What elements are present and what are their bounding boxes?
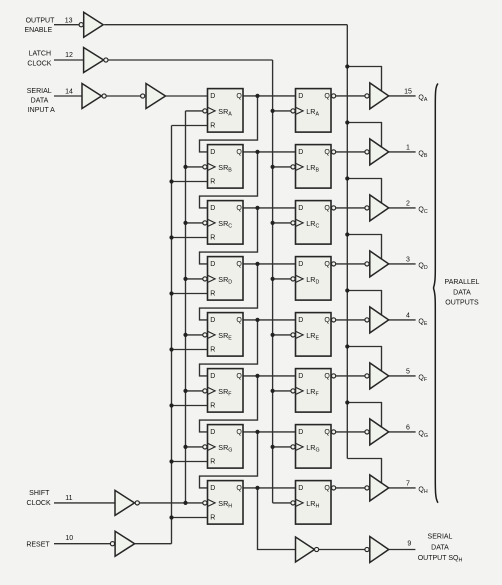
node shift clock bus tap F	[183, 389, 187, 393]
svg-text:5: 5	[406, 368, 410, 375]
clock bubble LRC	[291, 221, 295, 225]
svg-text:D: D	[298, 261, 303, 268]
svg-text:R: R	[210, 235, 215, 242]
svg-text:D: D	[210, 149, 215, 156]
svg-text:D: D	[298, 317, 303, 324]
clock bubble LRD	[291, 277, 295, 281]
wire shift clock branch to SRG	[186, 446, 203, 448]
clock bubble LRE	[291, 333, 295, 337]
svg-text:14: 14	[65, 89, 73, 96]
inverter RESET input bubble	[110, 542, 114, 546]
svg-text:11: 11	[65, 495, 72, 502]
wire SRH Q to LRH D	[243, 487, 296, 489]
wire shift clock branch to SRD	[186, 278, 203, 280]
buffer serial output first	[296, 537, 315, 562]
wire LATCH CLOCK pin 12 input stub	[54, 59, 84, 61]
wire latch clock branch to LRA	[273, 110, 291, 112]
node reset bus tap E	[169, 347, 173, 351]
wire SRC Q to LRC D	[243, 207, 296, 209]
inverted Q bubble LRB	[332, 150, 336, 154]
wire QB output pin 1	[389, 151, 416, 153]
svg-text:Q: Q	[324, 93, 330, 100]
svg-text:D: D	[210, 261, 215, 268]
node shift clock bus bottom tap	[183, 501, 187, 505]
node OE bus tap E	[345, 288, 349, 292]
svg-text:Q: Q	[236, 93, 242, 100]
wire SHIFT CLOCK pin 11 input stub	[54, 502, 115, 504]
svg-text:DATA: DATA	[453, 289, 471, 296]
svg-text:D: D	[210, 373, 215, 380]
node OE bus tap A	[345, 64, 349, 68]
inverted Q bubble LRC	[332, 206, 336, 210]
node OE bus tap C	[345, 176, 349, 180]
wire shift clock branch to SRB	[186, 166, 203, 168]
inverter SHIFT CLOCK output bubble	[135, 501, 139, 505]
flip-flop LRA	[296, 89, 332, 133]
svg-text:9: 9	[407, 540, 411, 547]
wire latch-clock net from buffer to latch bus	[108, 59, 273, 61]
svg-text:ENABLE: ENABLE	[24, 27, 52, 34]
buffer serial data first	[82, 84, 102, 109]
wire enable branch to buffer B	[347, 123, 381, 148]
flip-flop LRB	[296, 145, 332, 189]
wire shift clock bus vertical	[185, 111, 187, 503]
flip-flop SRD	[208, 257, 244, 301]
flip-flop LRG	[296, 425, 332, 469]
wire enable branch to buffer C	[347, 179, 381, 204]
wire OUTPUT ENABLE pin 13 input stub	[54, 24, 79, 26]
wire SRC Q to SRD D	[200, 208, 258, 264]
svg-text:DATA: DATA	[31, 98, 49, 105]
node SRB Q junction	[255, 150, 259, 154]
svg-text:R: R	[210, 291, 215, 298]
flip-flop LRC	[296, 201, 332, 245]
node latch clock bus tap B	[271, 165, 275, 169]
wire SRD Q to SRE D	[200, 264, 258, 320]
node shift clock bus tap G	[183, 445, 187, 449]
wire SRF Q to LRF D	[243, 375, 296, 377]
node latch clock bus tap C	[271, 221, 275, 225]
svg-text:D: D	[298, 373, 303, 380]
node SRC Q junction	[255, 206, 259, 210]
node OE bus tap D	[345, 232, 349, 236]
svg-text:R: R	[210, 515, 215, 522]
clock bubble SRE	[203, 333, 207, 337]
wire latch clock branch to LRD	[273, 278, 291, 280]
wire reset branch to SRH R	[172, 517, 208, 519]
clock bubble SRB	[203, 165, 207, 169]
svg-text:D: D	[298, 485, 303, 492]
wire latch clock branch to LRB	[273, 166, 291, 168]
wire SRD Q to LRD D	[243, 263, 296, 265]
svg-text:PARALLEL: PARALLEL	[445, 279, 480, 286]
svg-text:R: R	[210, 123, 215, 130]
clock bubble LRF	[291, 389, 295, 393]
svg-text:3: 3	[406, 256, 410, 263]
svg-text:INPUT A: INPUT A	[28, 107, 55, 114]
svg-text:CLOCK: CLOCK	[27, 500, 51, 507]
node OE bus tap G	[345, 400, 349, 404]
flip-flop LRE	[296, 313, 332, 357]
wire SRG Q to LRG D	[243, 431, 296, 433]
wire latch clock branch to LRC	[273, 222, 291, 224]
flip-flop SRB	[208, 145, 244, 189]
svg-text:7: 7	[406, 480, 410, 487]
wire shift clock net to SRH clock	[139, 502, 203, 504]
wire between serial output buffers	[319, 549, 365, 551]
wire SRG Q to SRH D	[200, 432, 258, 488]
node latch clock bus tap D	[271, 277, 275, 281]
node shift clock bus tap E	[183, 333, 187, 337]
node latch clock bus tap E	[271, 333, 275, 337]
flip-flop LRF	[296, 369, 332, 413]
inverter OUTPUT ENABLE input bubble	[79, 23, 83, 27]
wire RESET pin 10 input stub	[54, 543, 110, 545]
wire reset branch to SRE R	[172, 349, 208, 351]
wire reset bus vertical	[171, 126, 173, 544]
svg-text:Q: Q	[236, 149, 242, 156]
wire SRH Q to serial output buffer	[258, 488, 296, 550]
svg-text:CLOCK: CLOCK	[27, 60, 51, 67]
tri-state output buffer QF	[370, 363, 389, 389]
node latch clock bus tap G	[271, 445, 275, 449]
svg-text:Q: Q	[236, 205, 242, 212]
node SRF Q junction	[255, 374, 259, 378]
wire SRE Q to LRE D	[243, 319, 296, 321]
svg-text:OUTPUTS: OUTPUTS	[445, 299, 479, 306]
wire between serial input buffers	[106, 95, 140, 97]
inverter input bubble output buffer G	[365, 430, 369, 434]
svg-text:SHIFT: SHIFT	[29, 490, 50, 497]
svg-text:Q: Q	[236, 261, 242, 268]
svg-text:Q: Q	[236, 485, 242, 492]
clock bubble SRD	[203, 277, 207, 281]
node shift clock bus tap B	[183, 165, 187, 169]
svg-text:D: D	[210, 93, 215, 100]
svg-text:Q: Q	[324, 317, 330, 324]
flip-flop SRF	[208, 369, 244, 413]
clock bubble LRH	[291, 501, 295, 505]
svg-text:Q: Q	[324, 205, 330, 212]
wire reset net to reset bus	[135, 543, 171, 545]
clock bubble LRB	[291, 165, 295, 169]
wire shift clock branch to SRE	[186, 334, 203, 336]
inverted Q bubble LRH	[332, 486, 336, 490]
svg-text:12: 12	[65, 52, 73, 59]
wire QA output pin 15	[389, 95, 416, 97]
inverter serial data second input bubble	[141, 94, 145, 98]
wire LRH Q to output buffer	[336, 487, 365, 489]
tri-state output buffer QE	[370, 307, 389, 333]
wire reset branch to SRA R	[172, 125, 208, 127]
svg-text:D: D	[210, 317, 215, 324]
buffer OUTPUT ENABLE	[84, 12, 104, 37]
wire latch clock bus vertical	[272, 60, 274, 503]
wire reset branch to SRC R	[172, 237, 208, 239]
flip-flop SRH	[208, 481, 244, 524]
wire shift clock branch to SRA	[186, 110, 203, 112]
wire SERIAL DATA pin 14 input stub	[54, 95, 82, 97]
wire output-enable net from buffer to OE bus	[104, 24, 347, 26]
node shift clock bus tap D	[183, 277, 187, 281]
node SRA Q junction	[255, 94, 259, 98]
node SRH Q junction	[255, 486, 259, 490]
wire QH output pin 7	[389, 487, 416, 489]
wire SRA Q to LRA D	[243, 95, 296, 97]
inverted Q bubble LRD	[332, 262, 336, 266]
node reset bus tap G	[169, 459, 173, 463]
inverted Q bubble LRE	[332, 318, 336, 322]
node reset bus tap D	[169, 291, 173, 295]
buffer serial output second	[370, 537, 389, 563]
node reset bus tap C	[169, 235, 173, 239]
node SRG Q junction	[255, 430, 259, 434]
svg-text:13: 13	[65, 17, 73, 24]
wire LRB Q to output buffer	[336, 151, 365, 153]
wire enable branch to buffer F	[347, 347, 381, 372]
wire reset branch to SRD R	[172, 293, 208, 295]
wire reset branch to SRF R	[172, 405, 208, 407]
buffer SHIFT CLOCK	[115, 490, 135, 515]
tri-state output buffer QD	[370, 251, 389, 277]
flip-flop SRC	[208, 201, 244, 245]
wire enable branch to buffer H	[347, 459, 381, 484]
svg-text:OUTPUT: OUTPUT	[26, 17, 56, 24]
node reset bus tap H	[169, 515, 173, 519]
svg-text:4: 4	[406, 312, 410, 319]
inverter input bubble output buffer F	[365, 374, 369, 378]
wire SRA Q to SRB D	[200, 96, 258, 152]
svg-text:Q: Q	[324, 485, 330, 492]
wire SRB Q to LRB D	[243, 151, 296, 153]
wire LRE Q to output buffer	[336, 319, 365, 321]
svg-text:R: R	[210, 403, 215, 410]
node SRE Q junction	[255, 318, 259, 322]
inverter input bubble output buffer D	[365, 262, 369, 266]
inverter serial data first output bubble	[102, 94, 106, 98]
inverted Q bubble LRA	[332, 94, 336, 98]
wire enable branch to buffer G	[347, 403, 381, 428]
node reset bus tap F	[169, 403, 173, 407]
svg-text:D: D	[298, 93, 303, 100]
wire LRG Q to output buffer	[336, 431, 365, 433]
node latch clock bus tap F	[271, 389, 275, 393]
svg-text:R: R	[210, 347, 215, 354]
flip-flop LRH	[296, 481, 332, 524]
wire enable branch to buffer E	[347, 291, 381, 316]
buffer LATCH CLOCK	[84, 48, 104, 73]
inverter input bubble output buffer B	[365, 150, 369, 154]
clock bubble LRA	[291, 109, 295, 113]
svg-text:15: 15	[404, 88, 412, 95]
svg-text:R: R	[210, 179, 215, 186]
inverter serial output second input bubble	[365, 547, 369, 551]
svg-text:LATCH: LATCH	[29, 50, 51, 57]
svg-text:2: 2	[406, 200, 410, 207]
svg-text:R: R	[210, 459, 215, 466]
svg-text:D: D	[298, 149, 303, 156]
inverter serial output first bubble	[315, 547, 319, 551]
wire enable branch to buffer D	[347, 235, 381, 260]
wire OE bus vertical	[346, 25, 348, 459]
flip-flop SRG	[208, 425, 244, 469]
node latch clock bus tap A	[271, 109, 275, 113]
wire LRD Q to output buffer	[336, 263, 365, 265]
node OE bus tap B	[345, 120, 349, 124]
svg-text:Q: Q	[324, 149, 330, 156]
tri-state output buffer QA	[370, 83, 389, 109]
wire LRF Q to output buffer	[336, 375, 365, 377]
clock bubble SRC	[203, 221, 207, 225]
flip-flop SRE	[208, 313, 244, 357]
svg-text:SERIAL: SERIAL	[428, 534, 453, 541]
svg-text:1: 1	[406, 144, 410, 151]
svg-text:Q: Q	[236, 317, 242, 324]
wire LRC Q to output buffer	[336, 207, 365, 209]
node reset bus tap B	[169, 179, 173, 183]
node OE bus tap F	[345, 344, 349, 348]
svg-text:D: D	[210, 429, 215, 436]
clock bubble SRG	[203, 445, 207, 449]
flip-flop LRD	[296, 257, 332, 301]
clock bubble SRF	[203, 389, 207, 393]
wire serial output pin 9	[389, 549, 416, 551]
wire reset branch to SRB R	[172, 181, 208, 183]
inverter input bubble output buffer C	[365, 206, 369, 210]
wire latch clock branch to LRG	[273, 446, 291, 448]
svg-text:Q: Q	[236, 429, 242, 436]
tri-state output buffer QB	[370, 139, 389, 165]
svg-text:DATA: DATA	[431, 544, 449, 551]
clock bubble SRA	[203, 109, 207, 113]
wire serial data to SRA D input	[166, 95, 208, 97]
svg-text:10: 10	[65, 535, 73, 542]
svg-text:D: D	[210, 485, 215, 492]
inverted Q bubble LRF	[332, 374, 336, 378]
wire latch clock branch to LRF	[273, 390, 291, 392]
brace parallel outputs	[434, 84, 439, 503]
wire SRB Q to SRC D	[200, 152, 258, 208]
svg-text:RESET: RESET	[26, 542, 50, 549]
svg-text:SERIAL: SERIAL	[27, 88, 52, 95]
svg-text:D: D	[210, 205, 215, 212]
wire QD output pin 3	[389, 263, 416, 265]
inverter input bubble output buffer A	[365, 94, 369, 98]
node shift clock bus tap C	[183, 221, 187, 225]
wire SRF Q to SRG D	[200, 376, 258, 432]
wire LRA Q to output buffer	[336, 95, 365, 97]
tri-state output buffer QG	[370, 419, 389, 445]
wire QC output pin 2	[389, 207, 416, 209]
svg-text:Q: Q	[324, 429, 330, 436]
wire QF output pin 5	[389, 375, 416, 377]
clock bubble LRG	[291, 445, 295, 449]
buffer serial data second	[146, 84, 166, 109]
wire reset branch to SRG R	[172, 461, 208, 463]
wire QE output pin 4	[389, 319, 416, 321]
inverter LATCH CLOCK output bubble	[104, 58, 108, 62]
wire QG output pin 6	[389, 431, 416, 433]
flip-flop SRA	[208, 89, 244, 133]
wire enable branch to buffer A	[347, 67, 381, 92]
inverted Q bubble LRG	[332, 430, 336, 434]
clock bubble SRH	[203, 501, 207, 505]
wire latch clock branch to LRE	[273, 334, 291, 336]
buffer RESET	[115, 531, 135, 556]
tri-state output buffer QC	[370, 195, 389, 221]
wire shift clock branch to SRC	[186, 222, 203, 224]
svg-text:D: D	[298, 429, 303, 436]
wire shift clock branch to SRF	[186, 390, 203, 392]
wire SRE Q to SRF D	[200, 320, 258, 376]
svg-text:Q: Q	[324, 261, 330, 268]
svg-text:D: D	[298, 205, 303, 212]
tri-state output buffer QH	[370, 475, 389, 501]
wire latch clock branch to LRH	[273, 502, 291, 504]
svg-text:Q: Q	[236, 373, 242, 380]
svg-text:Q: Q	[324, 373, 330, 380]
inverter input bubble output buffer H	[365, 486, 369, 490]
svg-text:6: 6	[406, 424, 410, 431]
node SRD Q junction	[255, 262, 259, 266]
inverter input bubble output buffer E	[365, 318, 369, 322]
